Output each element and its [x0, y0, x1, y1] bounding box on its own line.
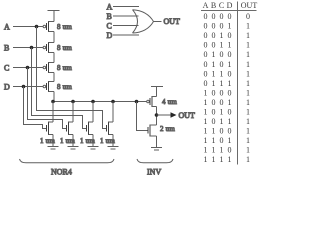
label M1 8 um [57, 23, 72, 31]
label U2 input B [107, 12, 112, 21]
svg-text:OUT: OUT [164, 17, 181, 26]
truth table row 0111 [204, 79, 251, 88]
svg-text:1: 1 [246, 60, 250, 69]
truth table row 0011 [204, 41, 251, 50]
node rail junction 4 [111, 100, 115, 104]
svg-text:0: 0 [204, 60, 208, 69]
svg-text:0: 0 [204, 12, 208, 21]
transistor M4 PMOS 8um [43, 81, 54, 92]
node A junction [35, 25, 39, 29]
transistor M3 PMOS 8um [43, 62, 54, 73]
svg-text:0: 0 [212, 41, 216, 50]
svg-text:8 um: 8 um [57, 83, 72, 91]
transistor M10 NMOS 2um [148, 125, 157, 148]
truth table row 1111 [204, 155, 251, 164]
svg-text:0: 0 [212, 88, 216, 97]
ground M10 [151, 147, 162, 150]
truth table header rule [201, 10, 257, 12]
svg-text:1: 1 [212, 136, 216, 145]
svg-text:0: 0 [212, 117, 216, 126]
wire U2 input D [113, 34, 139, 36]
svg-text:1: 1 [228, 117, 232, 126]
node D junction [22, 85, 26, 89]
svg-text:1: 1 [246, 136, 250, 145]
svg-text:1: 1 [246, 41, 250, 50]
truth table row 0100 [204, 50, 251, 59]
svg-text:1: 1 [246, 98, 250, 107]
truth table row 1011 [204, 117, 251, 126]
svg-text:0: 0 [212, 108, 216, 117]
svg-text:A: A [4, 22, 10, 31]
svg-text:0: 0 [204, 50, 208, 59]
label U2 input D [107, 31, 113, 40]
wire OUT arrow [157, 112, 177, 118]
svg-text:1: 1 [246, 79, 250, 88]
svg-text:1: 1 [204, 98, 208, 107]
svg-text:1: 1 [220, 41, 224, 50]
svg-text:OUT: OUT [241, 1, 258, 10]
power VDD inverter [151, 87, 163, 97]
svg-text:1 um: 1 um [60, 137, 75, 145]
svg-text:0: 0 [220, 98, 224, 107]
svg-text:1: 1 [212, 69, 216, 78]
svg-text:1: 1 [246, 50, 250, 59]
svg-text:0: 0 [220, 22, 224, 31]
svg-text:1: 1 [204, 117, 208, 126]
svg-text:1: 1 [212, 60, 216, 69]
svg-text:D: D [4, 82, 10, 91]
svg-text:0: 0 [204, 22, 208, 31]
ground M8 [108, 146, 119, 149]
svg-text:D: D [107, 31, 113, 40]
svg-text:1: 1 [246, 69, 250, 78]
wire bus D [24, 87, 47, 129]
truth table row 1100 [204, 127, 251, 136]
svg-text:1: 1 [246, 22, 250, 31]
label M8 1 um [100, 137, 115, 145]
svg-text:1: 1 [246, 31, 250, 40]
svg-text:D: D [227, 1, 233, 10]
svg-text:0: 0 [228, 108, 232, 117]
svg-text:0: 0 [212, 12, 216, 21]
svg-text:1: 1 [228, 60, 232, 69]
transistor M9 PMOS 4um [147, 96, 157, 107]
wire U2 input C [113, 25, 139, 27]
svg-text:1: 1 [246, 127, 250, 136]
node OUT junction [155, 113, 159, 117]
label NOR4 [51, 168, 72, 177]
svg-text:1: 1 [204, 155, 208, 164]
node C junction [26, 66, 30, 70]
label M9 4 um [162, 98, 177, 106]
svg-text:0: 0 [228, 50, 232, 59]
truth table row 1110 [204, 146, 251, 155]
truth table row 0000 [204, 12, 251, 21]
svg-text:1: 1 [228, 41, 232, 50]
svg-text:1 um: 1 um [40, 137, 55, 145]
svg-text:0: 0 [228, 69, 232, 78]
wire input A [13, 26, 43, 28]
truth table header [203, 1, 258, 10]
node C label [4, 63, 9, 72]
label INV [147, 168, 161, 177]
label M7 1 um [80, 137, 95, 145]
wire PMOS stack column [53, 32, 55, 102]
svg-text:0: 0 [212, 31, 216, 40]
svg-text:1: 1 [204, 136, 208, 145]
transistor M6 NMOS 1um [67, 102, 74, 147]
svg-text:0: 0 [212, 22, 216, 31]
svg-text:0: 0 [220, 60, 224, 69]
label U2 input C [107, 21, 112, 30]
svg-text:B: B [211, 1, 216, 10]
ground M7 [88, 146, 99, 149]
svg-text:2 um: 2 um [160, 125, 175, 133]
svg-text:0: 0 [220, 88, 224, 97]
wire NOR output rail [53, 101, 147, 103]
wire bus B [32, 48, 87, 129]
svg-text:0: 0 [220, 136, 224, 145]
node D label [4, 82, 10, 91]
wire bus C [28, 68, 67, 129]
svg-text:0: 0 [220, 12, 224, 21]
truth table row 1001 [204, 98, 251, 107]
svg-text:0: 0 [228, 12, 232, 21]
brace NOR4 [20, 159, 115, 163]
svg-text:C: C [4, 63, 9, 72]
truth table column rule [237, 2, 239, 165]
truth table row 1101 [204, 136, 251, 145]
svg-text:1: 1 [204, 108, 208, 117]
svg-text:NOR4: NOR4 [51, 168, 72, 177]
svg-text:8 um: 8 um [57, 44, 72, 52]
svg-text:4 um: 4 um [162, 98, 177, 106]
svg-text:1: 1 [220, 79, 224, 88]
transistor M1 PMOS 8um [43, 21, 54, 32]
svg-text:1: 1 [220, 108, 224, 117]
svg-text:1: 1 [212, 146, 216, 155]
brace INV [137, 159, 173, 163]
ground M5 [48, 146, 59, 149]
wire U2 input B [113, 15, 139, 17]
svg-text:0: 0 [228, 88, 232, 97]
svg-text:1: 1 [220, 69, 224, 78]
node rail junction 5 inverter input [135, 100, 139, 104]
gate U2 OR4 symbol [133, 10, 154, 33]
svg-text:1: 1 [228, 98, 232, 107]
node rail junction 3 [91, 100, 95, 104]
svg-text:1: 1 [212, 155, 216, 164]
svg-text:1: 1 [228, 155, 232, 164]
svg-text:1: 1 [204, 88, 208, 97]
svg-text:1: 1 [228, 79, 232, 88]
wire inverter input [137, 102, 149, 131]
svg-text:1: 1 [212, 79, 216, 88]
svg-text:0: 0 [228, 31, 232, 40]
svg-text:1: 1 [228, 136, 232, 145]
wire input C [13, 67, 43, 69]
node rail junction 2 [71, 100, 75, 104]
svg-text:1: 1 [204, 127, 208, 136]
svg-text:1: 1 [246, 155, 250, 164]
svg-text:OUT: OUT [179, 111, 196, 120]
svg-text:C: C [107, 21, 112, 30]
svg-text:0: 0 [204, 31, 208, 40]
label M6 1 um [60, 137, 75, 145]
label U2 input A [107, 2, 113, 11]
svg-text:1: 1 [204, 146, 208, 155]
svg-text:A: A [203, 1, 209, 10]
label M5 1 um [40, 137, 55, 145]
svg-text:0: 0 [228, 127, 232, 136]
svg-text:1: 1 [246, 88, 250, 97]
transistor M8 NMOS 1um [107, 102, 114, 147]
svg-text:1 um: 1 um [80, 137, 95, 145]
transistor M5 NMOS 1um [47, 102, 54, 147]
svg-text:8 um: 8 um [57, 23, 72, 31]
svg-text:C: C [219, 1, 224, 10]
svg-text:1: 1 [246, 108, 250, 117]
wire bus A [37, 27, 107, 129]
svg-text:0: 0 [212, 98, 216, 107]
power VDD [48, 11, 60, 22]
svg-text:0: 0 [204, 79, 208, 88]
node rail junction 1 [51, 100, 55, 104]
label U2 OUT [164, 17, 181, 26]
transistor M7 NMOS 1um [87, 102, 94, 147]
label M10 2 um [160, 125, 175, 133]
svg-text:1: 1 [220, 31, 224, 40]
truth table row 0101 [204, 60, 251, 69]
truth table row 0010 [204, 31, 251, 40]
truth table row 1010 [204, 108, 251, 117]
svg-text:B: B [4, 43, 9, 52]
svg-text:0: 0 [246, 12, 250, 21]
svg-text:0: 0 [220, 127, 224, 136]
node B label [4, 43, 9, 52]
wire U2 output [154, 21, 162, 23]
svg-text:0: 0 [204, 69, 208, 78]
svg-text:0: 0 [228, 146, 232, 155]
svg-text:B: B [107, 12, 112, 21]
label M3 8 um [57, 64, 72, 72]
svg-text:1: 1 [220, 155, 224, 164]
svg-text:1: 1 [220, 146, 224, 155]
wire inverter output [156, 107, 158, 126]
svg-text:INV: INV [147, 168, 161, 177]
wire input D [13, 86, 43, 88]
svg-text:0: 0 [204, 41, 208, 50]
svg-text:1: 1 [246, 146, 250, 155]
svg-text:1: 1 [212, 50, 216, 59]
truth table [201, 1, 257, 165]
wire U2 input A [113, 6, 139, 8]
node B junction [30, 46, 34, 50]
truth table row 0110 [204, 69, 251, 78]
svg-text:1: 1 [220, 117, 224, 126]
wire input B [13, 47, 43, 49]
label OUT [179, 111, 196, 120]
transistor M2 PMOS 8um [43, 42, 54, 53]
svg-text:0: 0 [220, 50, 224, 59]
label M2 8 um [57, 44, 72, 52]
svg-text:1: 1 [246, 117, 250, 126]
svg-text:8 um: 8 um [57, 64, 72, 72]
truth table row 1000 [204, 88, 251, 97]
label M4 8 um [57, 83, 72, 91]
svg-text:A: A [107, 2, 113, 11]
svg-text:1 um: 1 um [100, 137, 115, 145]
svg-text:1: 1 [212, 127, 216, 136]
ground M6 [68, 146, 79, 149]
svg-text:1: 1 [228, 22, 232, 31]
node A label [4, 22, 10, 31]
truth table row 0001 [204, 22, 251, 31]
